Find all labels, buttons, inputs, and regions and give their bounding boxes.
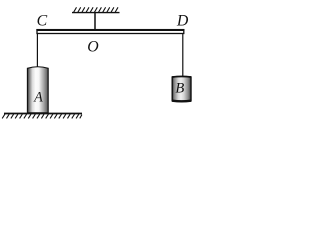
ceiling line <box>72 12 120 14</box>
ceiling hatching <box>74 7 118 12</box>
support rod at O <box>94 13 96 30</box>
left string <box>36 33 38 67</box>
svg-text:A: A <box>33 90 43 106</box>
cylinder A body <box>27 67 48 113</box>
cylinder B body <box>172 76 191 101</box>
ground hatching <box>2 114 82 118</box>
svg-text:C: C <box>37 13 48 30</box>
right string <box>182 33 184 77</box>
beam top edge <box>36 29 184 31</box>
beam CD <box>37 30 184 34</box>
svg-text:O: O <box>87 38 99 55</box>
ground line <box>4 113 82 115</box>
cylinder B bottom edge <box>172 99 191 102</box>
cylinder B top edge <box>172 75 191 78</box>
svg-text:B: B <box>175 81 184 97</box>
svg-text:D: D <box>176 12 189 29</box>
